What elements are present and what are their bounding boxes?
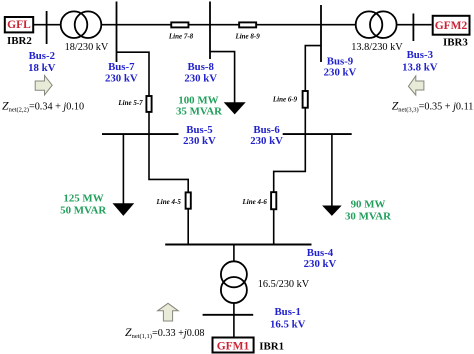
- svg-text:Line 5-7: Line 5-7: [117, 99, 143, 107]
- svg-text:Bus-3: Bus-3: [407, 49, 434, 61]
- svg-text:230 kV: 230 kV: [324, 67, 357, 79]
- svg-text:Line 7-8: Line 7-8: [168, 33, 194, 41]
- svg-text:Bus-8: Bus-8: [187, 61, 214, 73]
- svg-text:Bus-9: Bus-9: [327, 55, 354, 67]
- svg-text:230 kV: 230 kV: [105, 72, 138, 84]
- svg-text:16.5/230 kV: 16.5/230 kV: [258, 279, 310, 290]
- svg-text:230 kV: 230 kV: [250, 135, 283, 147]
- svg-text:Bus-5: Bus-5: [186, 124, 212, 136]
- svg-text:125 MW: 125 MW: [63, 192, 103, 204]
- svg-text:13.8 kV: 13.8 kV: [402, 61, 438, 73]
- svg-text:Bus-2: Bus-2: [29, 50, 55, 62]
- svg-text:50 MVAR: 50 MVAR: [60, 205, 106, 217]
- svg-text:18 kV: 18 kV: [28, 62, 56, 74]
- svg-text:GFM1: GFM1: [217, 340, 250, 352]
- svg-text:IBR3: IBR3: [443, 37, 468, 49]
- svg-text:Line 4-5: Line 4-5: [156, 198, 182, 206]
- svg-text:100 MW: 100 MW: [178, 94, 218, 106]
- svg-text:GFM2: GFM2: [435, 20, 468, 32]
- svg-text:13.8/230 kV: 13.8/230 kV: [351, 42, 403, 53]
- svg-text:16.5 kV: 16.5 kV: [270, 318, 306, 330]
- svg-text:35 MVAR: 35 MVAR: [176, 106, 222, 118]
- svg-text:Line 4-6: Line 4-6: [242, 198, 268, 206]
- svg-text:90 MW: 90 MW: [351, 199, 386, 211]
- svg-text:IBR2: IBR2: [7, 35, 32, 47]
- svg-text:18/230 kV: 18/230 kV: [65, 42, 109, 53]
- svg-text:Line 8-9: Line 8-9: [234, 33, 260, 41]
- svg-text:Bus-7: Bus-7: [108, 61, 135, 73]
- svg-text:230 kV: 230 kV: [184, 72, 217, 84]
- svg-text:Bus-1: Bus-1: [274, 306, 300, 318]
- svg-text:230 kV: 230 kV: [183, 135, 216, 147]
- svg-text:30 MVAR: 30 MVAR: [345, 211, 391, 223]
- svg-text:GFL: GFL: [7, 19, 31, 31]
- svg-text:230 kV: 230 kV: [304, 258, 337, 270]
- svg-text:Bus-4: Bus-4: [307, 247, 334, 259]
- svg-text:Bus-6: Bus-6: [253, 124, 280, 136]
- svg-text:Line 6-9: Line 6-9: [272, 96, 298, 104]
- svg-text:IBR1: IBR1: [259, 341, 284, 353]
